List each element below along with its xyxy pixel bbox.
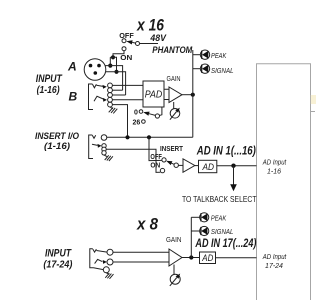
node A3 [114, 70, 118, 74]
wire: A1 right and down to cold line [113, 57, 117, 72]
svg-text:AD IN 17(...24): AD IN 17(...24) [195, 236, 257, 250]
label: AD Input 17-24 [262, 254, 287, 270]
label INPUT (17-24) [43, 248, 73, 271]
label: AD Input 1-16 [262, 160, 287, 176]
node A2 [108, 64, 112, 68]
svg-text:AD IN 1(...16): AD IN 1(...16) [196, 143, 256, 157]
wire: ring to amp [113, 261, 169, 263]
svg-text:26: 26 [133, 120, 141, 127]
svg-text:SIGNAL: SIGNAL [211, 229, 234, 236]
node: send branch 1 [125, 135, 129, 139]
svg-text:SIGNAL: SIGNAL [211, 68, 234, 75]
phantom switch SW1 OFF/ON [119, 31, 158, 62]
svg-text:PEAK: PEAK [211, 53, 227, 60]
svg-text:48V: 48V [149, 33, 166, 44]
wire: AD out to block bottom [216, 257, 257, 259]
AD block top [199, 160, 217, 172]
wire: arrow to talkback [233, 166, 235, 185]
svg-text:AD Input: AD Input [262, 254, 287, 261]
wire: branch down to OFF [149, 137, 162, 160]
node: talkback tap [231, 164, 235, 168]
insert switch [150, 144, 183, 173]
wire: insert return [106, 149, 160, 172]
node A1 [111, 55, 115, 59]
wire: A1 down to hot line [110, 57, 113, 65]
gain pot bottom [170, 265, 180, 286]
label INPUT (1-16) [36, 73, 63, 96]
ring spring contact [94, 96, 103, 101]
svg-text:(1-16): (1-16) [44, 141, 70, 152]
svg-text:A: A [67, 60, 77, 74]
tick on right edge [311, 111, 316, 113]
svg-text:B: B [69, 90, 78, 104]
wire: jack B contact 5 to insert send [112, 105, 127, 138]
LED PEAK top [193, 50, 227, 60]
svg-text:ON: ON [150, 160, 160, 169]
ground under jack B [109, 107, 118, 113]
node: amp output junction [191, 93, 195, 97]
LED SIGNAL top [193, 64, 234, 75]
op-amp gain stage bottom [169, 249, 200, 266]
wire: 48V feed [140, 43, 159, 45]
LED SIGNAL bottom [191, 226, 233, 235]
svg-text:GAIN: GAIN [166, 235, 182, 244]
wire: jack B contact 3 bridge [112, 94, 125, 96]
AD block bottom [200, 252, 216, 264]
svg-text:GAIN: GAIN [167, 74, 181, 83]
insert jack [89, 135, 107, 159]
wire: jack B ring to PAD [112, 99, 143, 101]
wire: tip to amp [113, 251, 169, 253]
svg-text:PEAK: PEAK [211, 215, 227, 222]
ground under jack 17-24 [105, 273, 113, 279]
svg-text:x 16: x 16 [136, 16, 165, 34]
node: send branch 2 [147, 135, 151, 139]
wire: meter/level column [192, 50, 194, 137]
PAD block [143, 81, 164, 107]
pad switch 0/26 [133, 107, 162, 127]
wire: insert send line [107, 136, 193, 138]
wire: jack B tip to PAD [112, 84, 143, 86]
wire: XLR cold (pin3) to bridge [106, 72, 126, 95]
svg-text:INPUT: INPUT [36, 73, 63, 85]
svg-text:17-24: 17-24 [265, 263, 283, 270]
svg-text:(17-24): (17-24) [43, 260, 73, 271]
svg-text:AD Input: AD Input [262, 160, 287, 167]
tip spring contact [97, 85, 104, 86]
svg-text:AD: AD [201, 253, 213, 264]
svg-text:1-16: 1-16 [267, 168, 281, 175]
XLR connector A [84, 59, 106, 81]
svg-text:(1-16): (1-16) [37, 85, 61, 96]
label INSERT I/O (1-16) [35, 131, 80, 152]
phone jack 17-24 [90, 249, 113, 273]
phone jack B [89, 83, 113, 110]
svg-text:0: 0 [134, 110, 138, 117]
svg-text:INSERT: INSERT [160, 144, 183, 153]
LED PEAK bottom [191, 213, 226, 223]
wire: AD out to block [217, 165, 257, 167]
svg-text:PAD: PAD [145, 88, 163, 100]
svg-text:INPUT: INPUT [45, 248, 72, 260]
wire: phantom ON to node A1 [113, 51, 124, 58]
ground under insert jack [104, 155, 113, 161]
op-amp gain stage top [164, 87, 193, 103]
node: amp out junction bottom [189, 255, 193, 259]
wire: XLR hot (pin2) to bridge [105, 66, 122, 91]
svg-text:AD: AD [202, 162, 214, 173]
gain pot top [170, 102, 180, 120]
faint yellow mark right of block [311, 95, 316, 104]
svg-text:TO TALKBACK SELECT: TO TALKBACK SELECT [182, 194, 257, 204]
svg-text:PHANTOM: PHANTOM [152, 45, 192, 55]
svg-text:x 8: x 8 [136, 216, 159, 234]
wire: bottom meter column [190, 217, 192, 257]
buffer amp insert [183, 159, 195, 173]
svg-text:OFF: OFF [119, 31, 134, 40]
AD converter main block U10 [257, 64, 316, 300]
wire: jack B contact 2 bridge [112, 89, 122, 91]
